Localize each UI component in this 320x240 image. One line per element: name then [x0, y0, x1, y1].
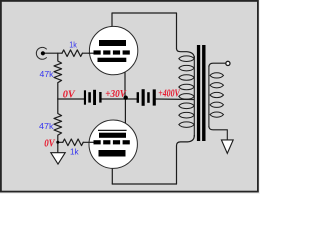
node junction (cathode/anode/+30V) [124, 96, 128, 100]
svg-text:47k: 47k [40, 69, 55, 79]
battery B1 (0V - +30V) [84, 90, 102, 105]
wire lower node [58, 141, 63, 143]
V2 cathode [99, 150, 126, 157]
V2 grid (dashed) [94, 140, 130, 144]
wire input jack to grid junction [45, 52, 62, 54]
transformer T1 primary winding [179, 56, 194, 127]
wire +400V to transformer centre tap [156, 98, 194, 101]
resistor R1 1k (grid stopper, top) [62, 50, 82, 57]
triode V2 envelope [89, 120, 137, 168]
wire 1k to tube V1 grid [82, 52, 93, 54]
wire V2 cathode down [111, 157, 113, 185]
V1 grid lead [89, 52, 94, 54]
svg-text:1k: 1k [69, 40, 77, 50]
ground (right, secondary) [221, 140, 233, 154]
wire 1k to tube V2 grid [83, 141, 93, 143]
triode V1 envelope [89, 26, 137, 74]
battery B2 (+30V - +400V) [137, 89, 156, 106]
wire V1 cathode to V2 anode (junction column) [124, 62, 126, 99]
V1 grid (dashed) [94, 50, 130, 54]
resistor R2 47k (upper divider) [54, 53, 62, 99]
wire bottom rail [112, 183, 176, 185]
wire secondary bottom to ground [209, 126, 227, 140]
resistor R4 1k (grid stopper, bottom) [63, 139, 83, 146]
wire 0V rail left [58, 98, 84, 100]
wire top rail [112, 13, 177, 49]
V1 cathode [98, 58, 127, 62]
transformer T1 secondary spine [208, 66, 210, 128]
svg-text:1k: 1k [70, 146, 79, 156]
V2 anode line [98, 129, 127, 131]
V2 grid lead [89, 141, 94, 143]
output terminal [226, 61, 230, 65]
V2 anode bar [99, 133, 126, 138]
resistor R3 47k (lower divider) [54, 99, 62, 142]
svg-text:0V: 0V [63, 89, 76, 100]
wire battery B1 to junction [102, 98, 125, 100]
svg-text:+30V: +30V [105, 89, 126, 100]
input jack J1 [36, 47, 46, 59]
wire top rail into transformer primary top [177, 49, 195, 59]
ground (left, bias divider) [51, 153, 65, 164]
wire junction to V2 anode [124, 99, 126, 130]
svg-text:0V: 0V [44, 139, 55, 150]
wire junction to battery B2 [127, 98, 137, 100]
wire secondary top to output terminal [209, 63, 226, 67]
V1 anode [99, 40, 126, 46]
svg-text:+400V: +400V [158, 88, 180, 99]
node junction (47k/1k/ground) [56, 141, 59, 144]
transformer core [197, 45, 200, 141]
ground stub left [57, 142, 59, 152]
transformer T1 primary spine [193, 56, 195, 137]
transformer T1 secondary winding [210, 73, 224, 117]
wire bottom rail up to transformer primary bottom [177, 136, 195, 185]
svg-text:47k: 47k [39, 121, 54, 131]
